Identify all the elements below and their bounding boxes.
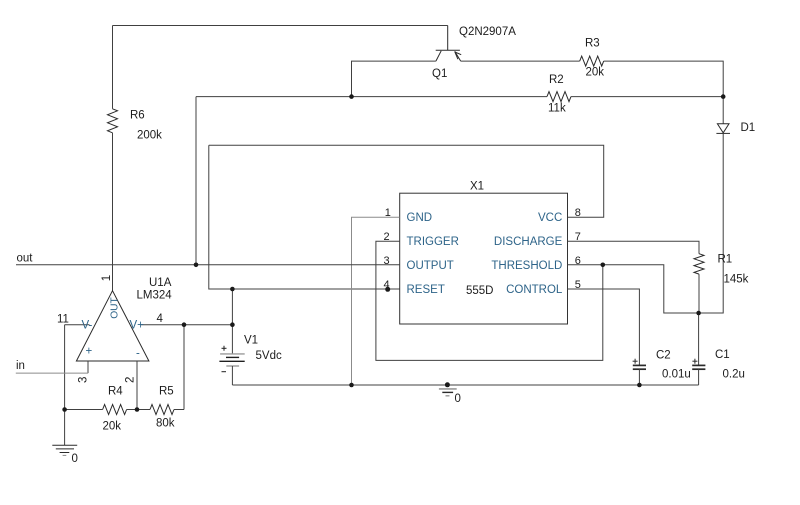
svg-text:0.01u: 0.01u: [662, 369, 691, 381]
resistor R6: [108, 109, 118, 133]
555 pin names (blue): [82, 212, 563, 360]
svg-text:R3: R3: [585, 38, 600, 50]
resistor R1: [694, 254, 704, 274]
node trigger/threshold: [601, 263, 606, 268]
svg-text:-: -: [136, 348, 140, 360]
svg-text:20k: 20k: [103, 421, 122, 433]
battery V1: [231, 289, 233, 354]
resistor R2: [547, 92, 571, 102]
svg-text:V+: V+: [130, 320, 145, 332]
svg-text:R6: R6: [130, 110, 145, 122]
wire C1 bottom to rail: [698, 369, 700, 385]
svg-text:THRESHOLD: THRESHOLD: [491, 260, 562, 272]
capacitor C2 plus sign: [633, 359, 638, 364]
resistor R5: [150, 405, 174, 415]
resistor R4: [103, 405, 127, 415]
svg-text:11k: 11k: [548, 103, 566, 115]
svg-text:2: 2: [384, 231, 390, 243]
svg-text:C1: C1: [715, 349, 730, 361]
svg-text:V-: V-: [82, 320, 93, 332]
svg-text:in: in: [16, 360, 25, 372]
battery plus sign: [222, 346, 227, 351]
node R4/R5/pin2: [135, 407, 140, 412]
svg-text:2: 2: [124, 377, 136, 383]
wire R3 to right vertical: [604, 61, 724, 97]
wire R2 right to D1 node: [571, 96, 723, 98]
svg-text:X1: X1: [470, 181, 484, 193]
wire VCC left down to RESET: [209, 145, 400, 289]
svg-text:out: out: [17, 253, 34, 265]
svg-text:LM324: LM324: [137, 290, 173, 302]
svg-text:0: 0: [455, 393, 461, 405]
wire C1 top to threshold node: [698, 313, 700, 365]
wire V1 minus to rail: [231, 366, 233, 385]
wire D1 anode: [722, 97, 724, 124]
capacitor C1: [692, 365, 705, 369]
wire out line to OUTPUT pin3: [16, 264, 400, 266]
ground 0 middle: [439, 389, 457, 396]
wire top from R6 to Q1 base: [113, 25, 448, 27]
wire op-amp +input pin 3: [87, 361, 89, 373]
svg-text:145k: 145k: [724, 274, 749, 286]
node rail/gnd555: [349, 383, 354, 388]
svg-text:0: 0: [72, 453, 78, 465]
node R5/V+: [182, 322, 187, 327]
svg-text:80k: 80k: [156, 418, 175, 430]
svg-text:RESET: RESET: [407, 284, 445, 296]
node rail/C2: [637, 383, 642, 388]
wire R6 upper lead: [112, 26, 114, 109]
capacitor C2: [633, 365, 646, 369]
wire R1 bottom to node: [698, 274, 700, 313]
svg-text:555D: 555D: [466, 285, 494, 297]
svg-text:6: 6: [575, 255, 581, 267]
svg-text:C2: C2: [656, 350, 671, 362]
wire R4 left lead: [65, 409, 103, 411]
node rail/ground0: [445, 382, 450, 387]
svg-text:R2: R2: [549, 74, 564, 86]
svg-text:11: 11: [57, 314, 69, 326]
node out/R2: [194, 263, 199, 268]
wire THRESHOLD pin6: [568, 265, 699, 313]
svg-text:1: 1: [385, 207, 391, 219]
wire TRIGGER pin2 loop to THRESHOLD: [376, 241, 603, 360]
svg-text:3: 3: [384, 255, 390, 267]
capacitor C1 plus sign: [692, 359, 697, 364]
wire CONTROL pin5 to C2: [568, 289, 640, 365]
resistor R3: [580, 56, 604, 66]
wire pin 11 down to ground: [64, 325, 66, 445]
node R1/C1/D1: [696, 311, 701, 316]
svg-text:5Vdc: 5Vdc: [256, 350, 282, 362]
wire in line (gray): [16, 372, 88, 374]
555 pin numbers: [384, 207, 581, 291]
wire R4 to R5: [127, 409, 150, 411]
op-amp U1A triangle: [76, 291, 148, 361]
wire R5 vertical: [183, 325, 185, 410]
wire op-amp V- pin 11: [65, 324, 90, 326]
svg-text:D1: D1: [741, 122, 756, 134]
svg-text:OUTPUT: OUTPUT: [407, 260, 454, 272]
wire R2 left end down to out line: [195, 97, 197, 265]
wire DISCHARGE pin7 to R1: [568, 241, 700, 254]
svg-text:OUT: OUT: [110, 297, 121, 319]
wire R2 net horizontal: [196, 96, 547, 98]
svg-text:8: 8: [575, 207, 581, 219]
wire R5 right lead: [174, 409, 184, 411]
svg-text:7: 7: [575, 231, 581, 243]
node R2/Q1: [349, 94, 354, 99]
svg-text:20k: 20k: [586, 67, 605, 79]
wire Q1 emitter to R3: [461, 60, 580, 62]
wire VCC top line: [209, 145, 604, 217]
wire op-amp -input pin 2: [136, 361, 138, 410]
svg-text:Q1: Q1: [432, 68, 447, 80]
svg-text:4: 4: [157, 313, 164, 325]
svg-text:5: 5: [575, 279, 581, 291]
node reset/battery: [230, 287, 235, 292]
wire Q1 collector to R2 node: [352, 61, 436, 97]
wire D1 cathode down to threshold node: [699, 133, 724, 313]
svg-text:1: 1: [101, 275, 113, 281]
svg-text:U1A: U1A: [149, 277, 172, 289]
svg-text:0.2u: 0.2u: [723, 369, 745, 381]
555 IC box X1: [400, 193, 568, 324]
svg-text:VCC: VCC: [538, 212, 562, 224]
svg-text:V1: V1: [244, 335, 258, 347]
wire op-amp V+ pin 4 to battery: [141, 324, 233, 326]
svg-text:+: +: [86, 346, 93, 358]
transistor Q1: [436, 26, 462, 62]
battery minus sign: [222, 371, 227, 373]
wire C2 bottom to rail: [638, 369, 640, 385]
node V+/battery: [230, 322, 235, 327]
node R2/R3/D1: [721, 94, 726, 99]
svg-text:Q2N2907A: Q2N2907A: [459, 26, 516, 38]
svg-text:200k: 200k: [137, 130, 162, 142]
ground 0 left: [52, 445, 77, 455]
diode D1: [716, 124, 730, 134]
svg-text:R1: R1: [718, 254, 733, 266]
svg-text:3: 3: [78, 377, 90, 383]
svg-text:CONTROL: CONTROL: [506, 284, 563, 296]
node reset pin: [385, 287, 390, 292]
node R4/gnd/pin11: [62, 407, 67, 412]
wire R6 bottom to op-amp output pin: [112, 133, 114, 291]
svg-text:4: 4: [384, 279, 390, 291]
svg-text:R4: R4: [108, 386, 123, 398]
svg-text:R5: R5: [159, 386, 174, 398]
wire GND pin1 to bottom rail (gray): [352, 217, 400, 385]
wire bottom ground rail: [232, 384, 698, 386]
svg-text:DISCHARGE: DISCHARGE: [494, 236, 563, 248]
svg-text:TRIGGER: TRIGGER: [407, 236, 459, 248]
svg-text:GND: GND: [407, 212, 433, 224]
